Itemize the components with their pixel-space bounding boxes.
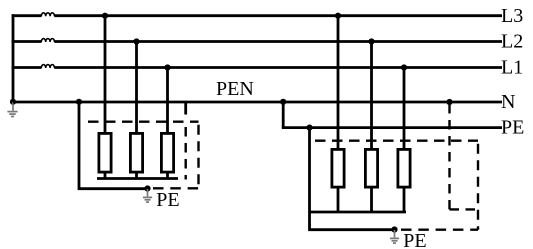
wire: PEN stub into enclosure 1 <box>184 102 187 115</box>
node: group 1 earth junction dot <box>144 185 150 191</box>
node: star point / PEN origin junction dot <box>10 99 16 105</box>
wire: F2 bottom lead <box>135 172 138 179</box>
wire: F5 bottom lead <box>370 187 373 212</box>
svg-text:PEN: PEN <box>216 78 254 100</box>
arrester F3 (SPD group 1) <box>161 133 173 172</box>
wire: L3 drop to arrester F1 <box>104 16 107 133</box>
node: L3 tap dot for SPD group 2 <box>335 13 341 19</box>
wire: L1 drop to arrester F6 <box>403 68 406 150</box>
wire: F3 bottom lead <box>166 172 169 179</box>
wire: F6 bottom lead <box>403 187 406 212</box>
enclosure group 2: dashed top edge <box>315 139 478 141</box>
enclosure group 2: dashed bottom edge <box>400 228 478 230</box>
svg-text:N: N <box>501 91 515 113</box>
wire: group 1 PE down conductor <box>79 102 148 189</box>
wire: phase conductor L2 <box>12 40 502 43</box>
wire: PEN to PE drop <box>282 102 285 128</box>
node: PE tap dot for group 2 <box>306 125 312 131</box>
winding: transformer coil on L2 <box>41 39 54 42</box>
wire: F1 bottom lead <box>104 172 107 179</box>
arrester F2 (SPD group 1) <box>130 133 142 172</box>
node: group 2 earth junction dot <box>391 226 397 232</box>
arrester F1 (SPD group 1) <box>99 133 111 172</box>
svg-text:PE: PE <box>156 189 179 211</box>
enclosure group 1: dashed bottom edge <box>152 187 199 189</box>
node: L2 tap dot for SPD group 1 <box>133 38 139 44</box>
wire: L2 drop to arrester F2 <box>135 42 138 134</box>
node: N tap dot for enclosure 2 <box>446 99 452 105</box>
svg-text:PE: PE <box>403 230 426 249</box>
enclosure group 2: dashed N drop / inner right edge <box>448 104 450 209</box>
node: L1 tap dot for SPD group 1 <box>164 64 170 70</box>
enclosure group 1: dashed top edge <box>88 120 199 122</box>
enclosure group 2: dashed outer right edge <box>477 141 479 230</box>
wire: L2 drop to arrester F5 <box>370 42 373 150</box>
ground: group 1 local earth <box>143 189 152 202</box>
arrester F4 (SPD group 2) <box>332 149 344 187</box>
arrester F5 (SPD group 2) <box>365 149 377 187</box>
wire: transformer star-point bus (left vertical) <box>12 14 15 102</box>
winding: transformer coil on L3 <box>41 13 54 16</box>
svg-text:L3: L3 <box>501 5 523 27</box>
enclosure group 2: dashed inner bottom edge <box>450 208 479 210</box>
wire: F4 bottom lead <box>337 187 340 212</box>
wire: PE conductor <box>282 126 502 129</box>
ground: transformer earth electrode <box>7 102 17 117</box>
node: PEN tap dot for group 1 PE conductor <box>76 99 82 105</box>
svg-text:L1: L1 <box>501 57 523 79</box>
node: L1 tap dot for SPD group 2 <box>401 64 407 70</box>
wire: group 2 earthing bus <box>310 211 406 214</box>
enclosure group 1: dashed inner right edge <box>184 121 186 180</box>
node: PEN split junction dot <box>280 99 286 105</box>
wire: group 1 earthing bus <box>97 177 178 180</box>
enclosure group 1: dashed outer right edge <box>197 122 199 189</box>
node: L3 tap dot for SPD group 1 <box>102 13 108 19</box>
node: L2 tap dot for SPD group 2 <box>368 38 374 44</box>
wire: phase conductor L3 <box>12 14 502 17</box>
arrester F6 (SPD group 2) <box>398 149 410 187</box>
wire: L3 drop to arrester F4 <box>337 16 340 149</box>
wire: phase conductor L1 <box>12 66 502 69</box>
svg-text:PE: PE <box>501 117 524 139</box>
winding: transformer coil on L1 <box>41 65 54 68</box>
wire: L1 drop to arrester F3 <box>166 68 169 134</box>
ground: group 2 local earth <box>390 230 399 243</box>
wire: combined PEN / N conductor <box>13 101 502 104</box>
wire: group 2 PE down conductor <box>310 128 395 230</box>
svg-text:L2: L2 <box>501 31 523 53</box>
